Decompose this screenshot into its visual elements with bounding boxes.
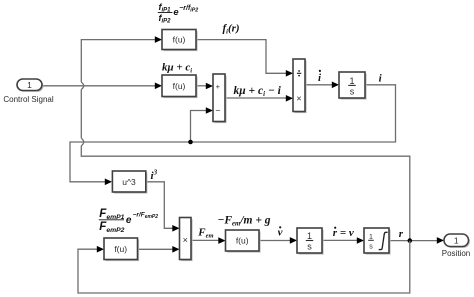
- svg-text:f(u): f(u): [236, 236, 249, 246]
- svg-text:kμ + ci − i: kμ + ci − i: [234, 85, 282, 98]
- svg-text:×: ×: [296, 94, 301, 104]
- svg-text:s: s: [350, 87, 355, 97]
- svg-text:fi(r): fi(r): [223, 23, 240, 36]
- svg-text:u^3: u^3: [122, 177, 136, 187]
- svg-text:1: 1: [454, 236, 459, 246]
- svg-text:1: 1: [307, 231, 312, 241]
- svg-text:r = v: r = v: [333, 227, 354, 239]
- svg-text:−Fem/m + g: −Fem/m + g: [217, 215, 270, 228]
- svg-text:1: 1: [27, 80, 32, 90]
- svg-text:f(u): f(u): [114, 244, 127, 254]
- svg-text:r: r: [399, 228, 404, 240]
- svg-text:Position: Position: [442, 249, 470, 258]
- svg-text:kμ + ci: kμ + ci: [162, 62, 192, 75]
- svg-text:f(u): f(u): [173, 35, 186, 45]
- svg-text:−: −: [215, 106, 220, 116]
- svg-text:s: s: [307, 242, 312, 252]
- svg-text:+: +: [216, 82, 221, 91]
- svg-text:s: s: [369, 244, 373, 251]
- svg-text:v: v: [278, 227, 283, 239]
- svg-text:Control Signal: Control Signal: [3, 95, 53, 104]
- svg-text:×: ×: [183, 235, 188, 245]
- svg-text:f(u): f(u): [173, 81, 186, 91]
- svg-text:e: e: [126, 215, 132, 226]
- svg-text:1: 1: [349, 76, 354, 86]
